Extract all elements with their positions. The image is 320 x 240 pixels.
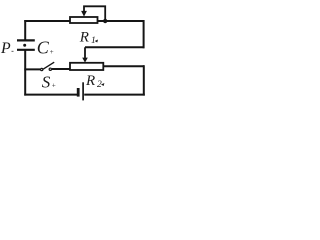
wire switch row left (24, 68, 40, 70)
rheostat R2 wiper stem (84, 47, 86, 58)
capacitor C bottom plate (17, 49, 35, 51)
switch S left contact circle (41, 68, 43, 70)
svg-text:P: P (0, 40, 11, 57)
wire switch to R2 box (52, 68, 70, 70)
wire right lower vertical (143, 65, 145, 95)
particle P dot between plates (23, 44, 26, 47)
svg-text:+: + (51, 82, 56, 90)
wire R2 wiper horizontal run (85, 46, 144, 48)
switch S lever blade (43, 62, 54, 69)
svg-text:+: + (49, 48, 54, 56)
switch S right contact circle (49, 68, 51, 70)
svg-text:R: R (85, 73, 95, 89)
label P small mark (12, 51, 14, 52)
wire capacitor lower lead down left side (24, 50, 26, 96)
wire bottom left of battery (24, 94, 77, 96)
capacitor C top plate (17, 39, 35, 41)
wire top horizontal (24, 20, 144, 22)
rheostat R1 wiper arrow link (84, 6, 105, 20)
rheostat R1 wiper arrowhead (81, 11, 87, 17)
svg-text:◂: ◂ (94, 38, 98, 44)
battery negative short thick plate (77, 88, 80, 97)
svg-text:◂: ◂ (101, 82, 105, 88)
wire bottom right of battery (84, 94, 145, 96)
svg-text:S: S (42, 72, 51, 91)
battery positive long thin plate (82, 82, 84, 100)
rheostat R2 wiper arrowhead (82, 58, 88, 63)
wire R2 right terminal (103, 65, 144, 67)
wire left vertical to capacitor (24, 20, 26, 40)
junction dot node at R1 right terminal (103, 19, 107, 23)
resistor R1 box (70, 17, 98, 23)
wire right upper vertical (143, 20, 145, 48)
resistor R2 box (70, 63, 103, 70)
svg-text:R: R (79, 30, 89, 46)
svg-text:C: C (37, 37, 50, 57)
